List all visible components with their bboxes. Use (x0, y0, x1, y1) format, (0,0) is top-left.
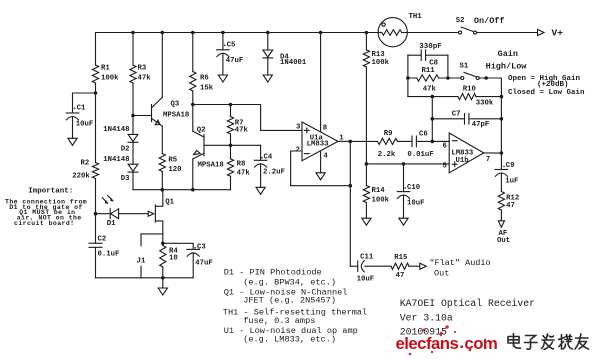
svg-text:47k: 47k (237, 170, 251, 178)
label C4 (261, 157, 263, 159)
svg-text:47pF: 47pF (472, 121, 490, 129)
op-amp U1a plus (304, 129, 309, 131)
ground C1 (68, 138, 77, 145)
transistor Q1 gate arrow (148, 211, 153, 216)
svg-text:10: 10 (169, 255, 178, 263)
ground C5 (218, 75, 227, 82)
label C1 (74, 108, 76, 110)
label C3 (194, 247, 196, 249)
terminal V+ arrow (538, 29, 544, 35)
wire C2 to bottom bus (95, 247, 97, 277)
resistor R7 (227, 117, 233, 135)
svg-text:1N4148: 1N4148 (103, 156, 129, 164)
photodiode D1 (110, 209, 118, 219)
wire R4 to bus (162, 267, 164, 278)
wire D1 node to C2 (95, 214, 97, 243)
capacitor C4 (254, 159, 267, 161)
wire R12 to AF out (500, 210, 502, 220)
svg-text:Q1: Q1 (165, 198, 174, 206)
wire to C3 (163, 243, 193, 249)
capacitor C2 (89, 242, 102, 244)
wire bias row to pin5 (366, 163, 449, 165)
wire rail TH1 to S2 (407, 32, 458, 34)
wire output down to flat tap (349, 141, 351, 266)
wire R10 row (408, 96, 502, 98)
wire D2 to D3 (132, 142, 134, 164)
capacitor C3 (187, 248, 200, 250)
svg-text:C5: C5 (227, 41, 236, 49)
svg-text:R5: R5 (168, 156, 177, 164)
thermal fuse TH1 (378, 18, 407, 47)
svg-text:C6: C6 (419, 131, 428, 139)
transistor Q2 (193, 131, 204, 159)
svg-text:5: 5 (443, 163, 447, 171)
svg-text:J1: J1 (137, 258, 146, 266)
terminal AF out arrow (498, 221, 504, 227)
svg-text:TH1: TH1 (409, 13, 423, 21)
node rail-R3 junction (131, 31, 135, 35)
wire rail to R1 (95, 33, 97, 66)
wire rail to R3 (132, 33, 134, 66)
node U1a output junction (349, 140, 353, 144)
wire R9 to C6 (398, 140, 412, 142)
wire C8 top row (408, 54, 448, 56)
wire R1 to R2 (95, 83, 97, 163)
svg-text:R9: R9 (384, 130, 393, 138)
svg-text:47uF: 47uF (226, 57, 244, 65)
resistor R15 (391, 263, 409, 269)
diode D3 (128, 164, 138, 171)
svg-text:Q2: Q2 (197, 127, 206, 135)
node rail-Q3 junction (161, 31, 165, 35)
node Q2 emitter bus junction (191, 188, 195, 192)
svg-text:C9: C9 (506, 162, 515, 170)
resistor R13 (363, 50, 369, 67)
wire C4 to ground (260, 164, 262, 188)
node R10 row left junction (431, 95, 435, 99)
svg-text:Closed = Low Gain: Closed = Low Gain (508, 89, 585, 97)
svg-text:4: 4 (323, 153, 328, 161)
resistor R5 (159, 154, 165, 172)
node rail-R6 junction (191, 31, 195, 35)
svg-text:MPSA18: MPSA18 (198, 161, 224, 169)
wire C11 to R15 (365, 265, 391, 267)
jumper J1 (140, 234, 142, 246)
label C9 (503, 166, 505, 168)
wire to R7 (230, 105, 232, 117)
svg-text:330k: 330k (476, 100, 494, 108)
node R7 top junction (229, 103, 233, 107)
op-amp U1b plus (452, 163, 457, 165)
svg-text:R14: R14 (372, 187, 386, 195)
svg-text:220k: 220k (72, 172, 90, 180)
wire R15 to flat out (409, 265, 419, 267)
wire bias to C10 (403, 164, 405, 192)
node Q1 source junction (161, 242, 165, 246)
svg-text:100k: 100k (372, 197, 390, 205)
node rail-C5 junction (221, 31, 225, 35)
svg-text:LM833: LM833 (307, 141, 330, 149)
wire C5 to ground (222, 53, 224, 75)
resistor R1 (92, 65, 98, 83)
svg-text:1N4001: 1N4001 (280, 59, 307, 67)
resistor R9 (378, 138, 398, 144)
svg-text:On/Off: On/Off (474, 16, 505, 26)
node C10 junction (402, 162, 406, 166)
wire output to R9 (350, 140, 377, 142)
svg-text:Important:: Important: (28, 187, 73, 195)
svg-text:(e.g. BPW34, etc.): (e.g. BPW34, etc.) (243, 278, 336, 288)
svg-text:10uF: 10uF (357, 276, 375, 284)
wire rail S2 to V+ terminal (476, 32, 537, 34)
resistor R14 (363, 186, 369, 203)
svg-text:330pF: 330pF (419, 43, 442, 51)
wire D1 anode (96, 213, 111, 215)
wire R14 to ground (365, 203, 367, 219)
wire C1 branch (73, 93, 96, 113)
wire C10 to ground (403, 195, 405, 218)
svg-text:High/Low: High/Low (486, 62, 528, 72)
svg-text:100k: 100k (101, 74, 119, 82)
node C7 right junction (500, 117, 504, 121)
resistor R11 (417, 75, 439, 81)
svg-text:7: 7 (486, 156, 490, 164)
svg-text:Out: Out (497, 237, 510, 245)
resistor R6 (190, 72, 196, 92)
ground D4 (263, 75, 272, 82)
capacitor C6 (411, 136, 413, 147)
svg-text:0.1uF: 0.1uF (98, 250, 120, 258)
wire gain box left (407, 55, 409, 96)
svg-text:JFET (e.g. 2N5457): JFET (e.g. 2N5457) (243, 296, 336, 306)
svg-text:R8: R8 (237, 161, 246, 169)
node R1-C1 junction (94, 91, 98, 95)
svg-text:10uF: 10uF (407, 200, 425, 208)
wire Q2 base row (204, 144, 261, 146)
svg-text:Gain: Gain (498, 49, 518, 59)
op-amp U1a (302, 122, 338, 161)
wire C3 to bus (192, 253, 194, 278)
svg-text:KA7OEI Optical Receiver: KA7OEI Optical Receiver (400, 298, 535, 309)
svg-text:C2: C2 (98, 235, 107, 243)
node rail-D4 junction (266, 31, 270, 35)
label C10 (404, 187, 406, 189)
wire gain box right (447, 55, 449, 78)
svg-text:(+20dB): (+20dB) (537, 81, 569, 89)
node R10 row right junction (500, 95, 504, 99)
svg-text:D1: D1 (107, 220, 116, 228)
svg-text:C10: C10 (407, 184, 420, 192)
svg-text:47uF: 47uF (195, 259, 213, 267)
svg-text:R6: R6 (200, 74, 209, 82)
svg-text:MPSA18: MPSA18 (163, 112, 189, 120)
wire output to C9 (500, 153, 502, 170)
ground R14 (362, 218, 371, 225)
node rail-U1a-pin8 junction (319, 31, 323, 35)
wire R13 to bias node (365, 67, 367, 164)
transistor Q1 (155, 190, 162, 243)
node D1 junction (94, 212, 98, 216)
svg-text:47: 47 (396, 272, 405, 280)
wire U1a feedback (291, 185, 351, 187)
node R14 junction (365, 162, 369, 166)
label C5 (224, 45, 226, 47)
capacitor C1 (66, 112, 79, 114)
svg-text:8: 8 (323, 125, 327, 133)
node R11 right junction (446, 76, 450, 80)
node R7-R8 junction (229, 144, 233, 148)
wire bus to ground (162, 278, 164, 288)
svg-text:100k: 100k (372, 59, 390, 67)
capacitor C11 (357, 261, 359, 271)
wire rail to R13 (365, 33, 367, 50)
wire bias to R14 (365, 164, 367, 186)
svg-text:0.01uF: 0.01uF (407, 151, 433, 159)
wire U1a pin4 to ground (320, 152, 322, 173)
ground main (158, 288, 167, 295)
svg-text:6: 6 (443, 143, 447, 151)
resistor R8 (227, 159, 233, 177)
wire U1a output (338, 140, 350, 142)
svg-text:C1: C1 (77, 104, 86, 112)
svg-text:R1: R1 (101, 64, 110, 72)
svg-text:47k: 47k (423, 86, 437, 94)
resistor R3 (130, 65, 136, 83)
svg-text:V+: V+ (552, 28, 564, 39)
resistor R12 (498, 192, 504, 211)
svg-text:2.2k: 2.2k (378, 151, 396, 159)
wire D4 to ground (267, 58, 269, 75)
wire R7 to base row (230, 134, 232, 145)
svg-text:1N4148: 1N4148 (103, 126, 129, 134)
svg-text:10uF: 10uF (76, 120, 94, 128)
svg-text:47: 47 (506, 202, 515, 210)
svg-text:R3: R3 (138, 64, 147, 72)
wire Q3 emitter to R5 (161, 126, 163, 153)
terminal flat out arrow (420, 263, 426, 269)
capacitor C10 (397, 191, 410, 193)
transistor Q2 emitter arrow (194, 151, 201, 155)
wire base row to C4 (260, 145, 262, 160)
ground C4 (256, 187, 265, 194)
node U1b output junction (500, 151, 504, 155)
wire C1 to ground (72, 117, 74, 139)
svg-text:D2: D2 (121, 145, 130, 153)
transistor Q3 (152, 97, 163, 126)
node R11 left junction (406, 76, 410, 80)
node C7 left junction (431, 117, 435, 121)
op-amp U1b minus (452, 140, 457, 142)
svg-text:elecfans.com: elecfans.com (396, 333, 498, 353)
svg-text:1uF: 1uF (505, 178, 518, 186)
node R5-Q1 bus junction (161, 188, 165, 192)
wire D1 to Q1 gate (119, 213, 148, 215)
wire U1b output (484, 152, 502, 154)
wire rail to C5 (222, 33, 224, 50)
svg-text:Q3: Q3 (171, 100, 180, 108)
svg-text:"Flat" Audio: "Flat" Audio (429, 258, 490, 268)
svg-text:D3: D3 (121, 175, 130, 183)
wire rail to D4 (267, 33, 269, 51)
svg-text:R10: R10 (463, 85, 476, 93)
svg-text:Ver 3.10a: Ver 3.10a (400, 312, 453, 323)
wire bottom ground bus (96, 277, 194, 279)
wire rail to U1a pin8 (320, 33, 322, 132)
wire R6 to Q2 collector (192, 91, 194, 131)
node R4-bus junction (161, 276, 165, 280)
svg-text:C11: C11 (360, 253, 374, 261)
resistor R4 (160, 246, 166, 268)
resistor R2 (92, 163, 98, 179)
wire Q1 source to J1 (141, 233, 163, 235)
node rail-R13 junction (365, 31, 369, 35)
svg-text:2.2uF: 2.2uF (263, 168, 285, 176)
wire Q2 emitter to bus (192, 159, 194, 190)
wire D3 to bus (132, 172, 134, 190)
wire A node riser (431, 97, 433, 142)
svg-text:D1 - PIN Photodiode: D1 - PIN Photodiode (224, 268, 322, 278)
wire C7 row (432, 118, 501, 120)
svg-text:C7: C7 (452, 111, 461, 119)
svg-text:S2: S2 (456, 17, 465, 25)
wire rail to R6 (192, 33, 194, 72)
svg-text:fuse, 0.3 amps: fuse, 0.3 amps (243, 316, 315, 326)
svg-text:47k: 47k (138, 74, 152, 82)
svg-text:R15: R15 (394, 254, 407, 262)
op-amp U1b (449, 133, 484, 173)
svg-text:C4: C4 (264, 154, 273, 162)
capacitor C9 (495, 169, 508, 171)
svg-text:U1b: U1b (456, 157, 470, 165)
svg-text:C3: C3 (197, 244, 206, 252)
watermark chinese characters (508, 334, 589, 350)
wire C9 to R12 (500, 173, 502, 192)
node R6-R7 junction (191, 103, 195, 107)
wire mid bus (133, 189, 231, 191)
svg-text:circuit board!: circuit board! (14, 220, 75, 227)
svg-text:R11: R11 (422, 67, 436, 75)
node Q3 base junction (131, 114, 135, 118)
diode D2 (128, 134, 138, 141)
ground U1a (316, 173, 325, 180)
wire right vertical to output (500, 97, 502, 153)
wire R5 to bus (161, 172, 163, 190)
wire S1 to right vertical (479, 78, 501, 97)
wire Q3 base (133, 115, 152, 117)
svg-text:(e.g. LM833, etc.): (e.g. LM833, etc.) (243, 335, 336, 345)
wire R6 node to pin3 riser (193, 105, 302, 131)
light arrows into D1 (102, 196, 113, 204)
op-amp U1a minus (304, 153, 309, 155)
capacitor C7 (464, 114, 466, 125)
wire V+ top rail (96, 32, 379, 34)
wire flat tap to C11 (350, 265, 357, 267)
wire R3 to D2 (132, 83, 134, 134)
svg-text:R2: R2 (81, 159, 90, 167)
node feedback junction (349, 184, 353, 188)
resistor R10 (458, 94, 476, 100)
wire Q3 collector to rail (161, 33, 163, 98)
watermark splatter (409, 325, 486, 355)
wire R8 to bus (230, 176, 232, 189)
wire base row to R8 (230, 145, 232, 159)
svg-text:S1: S1 (460, 63, 469, 71)
wire R2 to D1 node (95, 179, 97, 214)
ground C10 (399, 218, 408, 225)
node S1 wire junction (484, 76, 488, 80)
svg-text:47k: 47k (235, 127, 249, 135)
switch S2 (459, 27, 477, 34)
svg-text:R12: R12 (506, 194, 519, 202)
svg-text:15k: 15k (200, 84, 214, 92)
wire C6 to pin6 (416, 140, 449, 142)
switch S1 (461, 72, 479, 79)
svg-text:Out: Out (434, 268, 449, 278)
capacitor C8 (420, 50, 422, 61)
diode D4 (263, 50, 273, 57)
node pin6 junction (431, 140, 435, 144)
svg-text:3: 3 (296, 124, 301, 132)
svg-text:120: 120 (168, 166, 181, 174)
wire R11 row (408, 77, 461, 79)
transistor Q3 emitter arrow (155, 120, 160, 125)
capacitor C5 (217, 49, 230, 51)
wire U1a pin2 (291, 151, 302, 186)
